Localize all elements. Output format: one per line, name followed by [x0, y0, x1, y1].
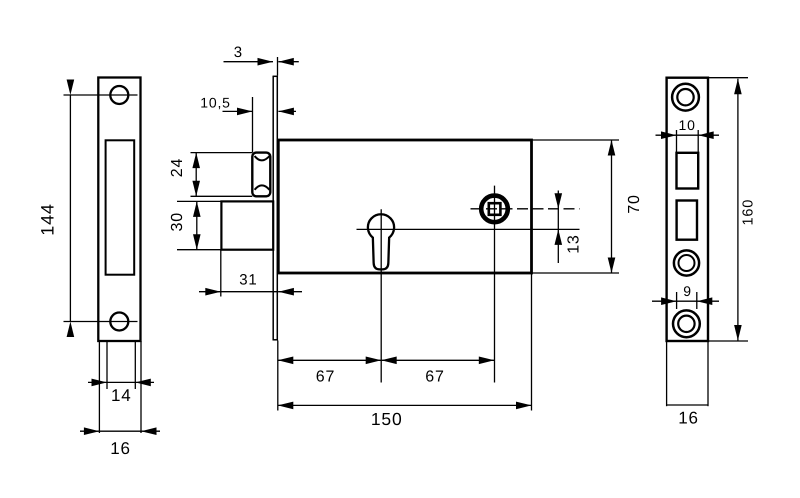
- svg-text:150: 150: [371, 409, 403, 429]
- svg-text:31: 31: [239, 272, 257, 289]
- svg-text:67: 67: [425, 369, 444, 386]
- svg-text:13: 13: [565, 234, 582, 253]
- svg-text:3: 3: [234, 44, 243, 61]
- svg-text:144: 144: [38, 203, 58, 235]
- svg-text:10,5: 10,5: [200, 95, 230, 111]
- svg-text:70: 70: [626, 194, 643, 213]
- svg-text:16: 16: [110, 439, 131, 458]
- svg-text:160: 160: [741, 199, 757, 226]
- svg-text:10: 10: [679, 117, 696, 133]
- svg-text:30: 30: [169, 212, 186, 231]
- svg-text:14: 14: [111, 386, 132, 405]
- svg-text:67: 67: [316, 369, 335, 386]
- svg-text:9: 9: [683, 283, 692, 299]
- svg-text:16: 16: [678, 408, 699, 427]
- svg-text:24: 24: [169, 158, 186, 177]
